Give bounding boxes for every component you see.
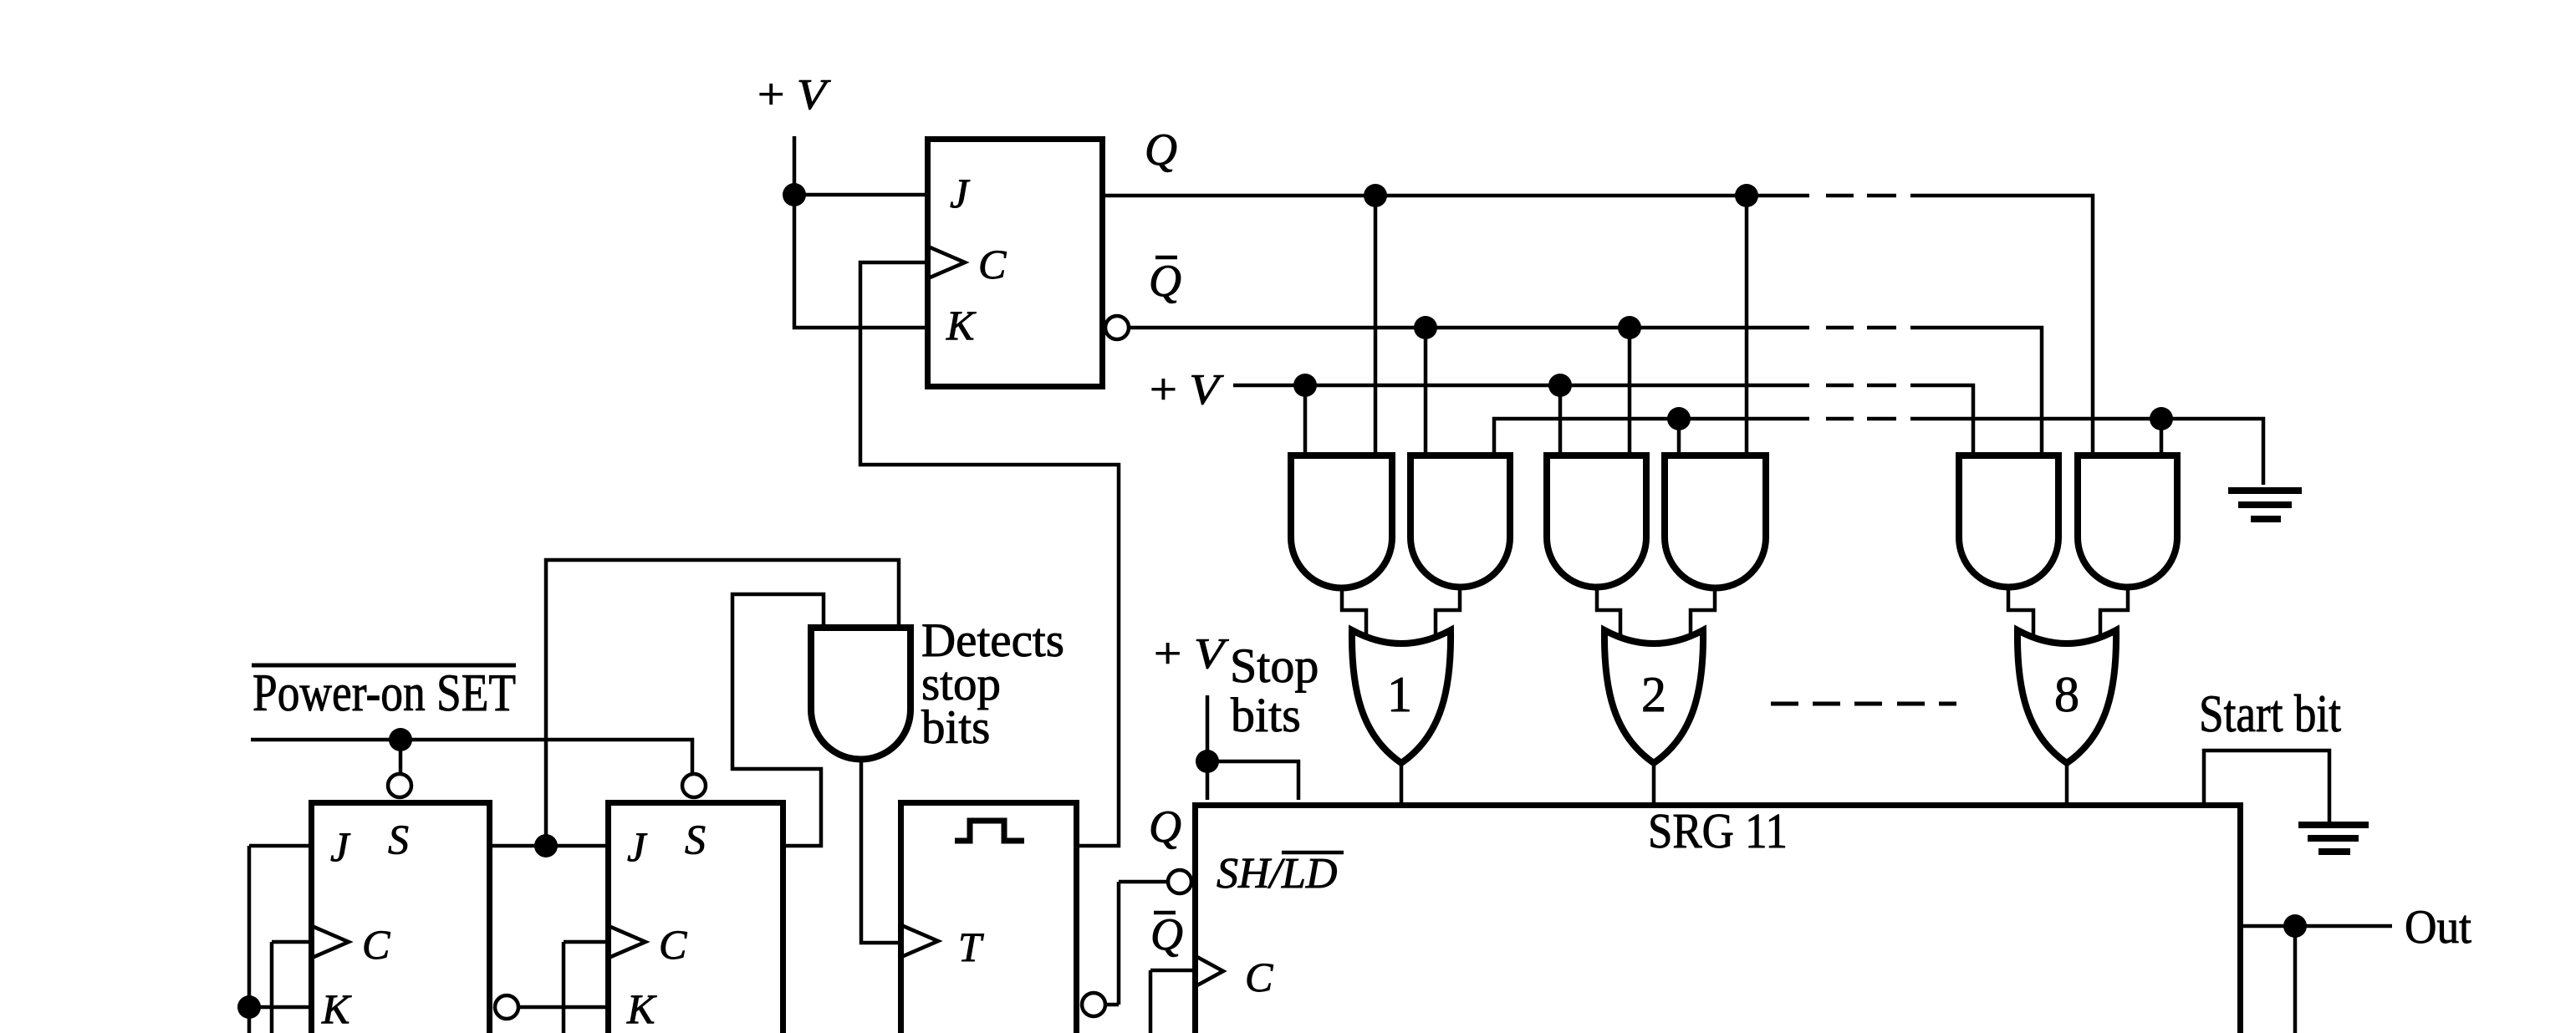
svg-text:Q: Q (1149, 801, 1181, 852)
node dot Power-on SET to U2 S (389, 728, 412, 751)
node Power-on SET overline (252, 664, 516, 668)
clock triangle C of U1 (928, 247, 965, 278)
bubble SH/LD input of SRG (1168, 870, 1191, 893)
bubble Qbar output of U4 (1082, 993, 1105, 1016)
wire +V bus (1233, 385, 1973, 453)
svg-text:Power-on SET: Power-on SET (252, 664, 516, 722)
svg-text:Q: Q (1149, 256, 1181, 306)
gate G2 (OR, bit 2) (1604, 630, 1703, 763)
node dot Q to gate A1 (1364, 184, 1387, 207)
wire A8 output to OR G8 (2100, 588, 2128, 637)
svg-text:+ V: + V (1154, 630, 1229, 678)
node dot Q to gate A4 (1735, 184, 1758, 207)
wire A5 output to U4 T input (861, 759, 898, 943)
clock triangle C of U3 (609, 926, 645, 958)
flip-flop U3 (stop-bit J-K) (609, 803, 783, 1033)
svg-text:S: S (388, 816, 409, 863)
wire A4 output to OR G2 (1691, 588, 1715, 637)
node dot +V to gate A3 (1548, 374, 1572, 397)
bubble Qbar output of U1 (1105, 316, 1129, 339)
gate A8 (AND) (2078, 455, 2177, 588)
node dot Qbar to gate A3 (1618, 316, 1641, 339)
register SRG 11 (1196, 806, 2241, 1033)
svg-text:+ V: + V (757, 71, 831, 119)
wire +V stub down to J node (793, 136, 797, 191)
node dot on output (2283, 914, 2307, 938)
pulse symbol of U4 (955, 821, 1024, 841)
node junction dot at J/K tie (783, 183, 806, 206)
svg-text:K: K (321, 985, 352, 1032)
node dot stop-bit tie (1196, 750, 1219, 773)
clock triangle C of SRG (1196, 956, 1223, 986)
gate G8 (OR, bit 8) (2017, 630, 2116, 763)
wire Qbar bus of U1 (1129, 328, 2042, 453)
node dot Qbar to gate A2 (1414, 316, 1437, 339)
wire A7 output to OR G8 (2008, 588, 2033, 637)
svg-text:K: K (946, 302, 977, 349)
clock triangle C of U2 (312, 926, 349, 958)
wire J input of U2 (249, 844, 309, 848)
label Detects stop bits (921, 614, 1064, 754)
wire U2 Qbar to U3 K (518, 1005, 605, 1010)
wire C input of SRG from below (1150, 970, 1192, 1033)
svg-text:J: J (627, 823, 648, 870)
ground (top right) (2228, 487, 2302, 522)
wire K input of U2 (249, 1005, 309, 1010)
svg-text:bits: bits (921, 701, 990, 754)
ground (start bit) (2298, 822, 2369, 855)
wire G8 output to SRG (2065, 763, 2069, 802)
node dot U2 Q junction (534, 834, 558, 857)
svg-text:8: 8 (2054, 667, 2079, 722)
clock triangle T of U4 (901, 925, 938, 957)
svg-text:2: 2 (1641, 667, 1666, 722)
svg-text:Start bit: Start bit (2199, 684, 2341, 743)
wire A1 output to OR G1 (1342, 588, 1366, 637)
wire +V down to gate A3 (1558, 385, 1563, 453)
wire Qbar down to gate A2 (1424, 328, 1428, 453)
bubble S input of U3 (682, 774, 706, 797)
svg-text:Stop: Stop (1230, 639, 1319, 693)
gate A1 (AND) (1291, 455, 1392, 588)
wire Q down to gate A1 (1374, 196, 1378, 453)
node dot data line to gate A8 (2150, 407, 2173, 430)
wire A3 output to OR G2 (1597, 588, 1620, 637)
wire start-bit input of SRG to ground (2204, 751, 2329, 822)
gate A3 (AND) (1547, 455, 1646, 588)
node Qbar overline of U1 (1155, 256, 1177, 260)
svg-text:C: C (659, 921, 687, 968)
wire Q bus of U1 (1105, 196, 2093, 453)
svg-text:+ V: + V (1150, 366, 1224, 414)
wire G2 output to SRG (1652, 763, 1656, 802)
wire +V down to gate A1 (1303, 385, 1308, 453)
svg-text:C: C (1245, 954, 1273, 1000)
label Stop bits (1230, 639, 1319, 742)
svg-text:S: S (685, 816, 706, 863)
bubble S input of U2 (388, 774, 411, 797)
gate A2 (AND) (1410, 455, 1510, 588)
flip-flop U1 (top J-K toggle) (928, 140, 1103, 387)
wire J-K feedback vertical of U2 (247, 846, 252, 1033)
wire Qbar down to gate A3 (1628, 328, 1632, 453)
wire G1 output to SRG (1400, 763, 1404, 802)
svg-text:C: C (362, 921, 390, 968)
wire data line down to gate A4 (1677, 419, 1681, 453)
wire stub to U2 S bubble (399, 740, 403, 774)
wire data line down to gate A8 (2160, 419, 2164, 453)
gate G1 (OR, bit 1) (1352, 630, 1451, 763)
wire U4 Qbar to SRG SH/LD (1105, 882, 1167, 1005)
wire U2 Q to U3 J (492, 844, 605, 848)
wire A2 output to OR G1 (1436, 588, 1460, 637)
svg-text:K: K (626, 985, 657, 1032)
node dot +V to gate A1 (1293, 374, 1317, 397)
svg-text:T: T (958, 924, 984, 970)
svg-text:C: C (978, 241, 1007, 288)
wire dashes between G2 and G8 (1771, 702, 1956, 706)
svg-text:1: 1 (1387, 667, 1412, 722)
node Qbar overline of U4 (1154, 911, 1176, 915)
wire Q down to gate A4 (1745, 196, 1749, 453)
node dot data line to gate A4 (1667, 407, 1691, 430)
svg-text:J: J (950, 170, 971, 216)
gate A7 (AND) (1959, 455, 2058, 588)
svg-text:J: J (330, 823, 351, 870)
wire K input of U1 tied to +V (794, 195, 925, 328)
wire C of U1 from one-shot Q (860, 262, 1119, 846)
wire +V to stop-bit inputs of SRG (1207, 695, 1298, 800)
node dot K tie of U2 (237, 995, 261, 1019)
svg-text:Q: Q (1150, 909, 1183, 959)
pin label overline over LD (1282, 851, 1344, 855)
wire U2 Q up to gate A5 right input (546, 560, 899, 846)
wire C input of U2 from below (272, 942, 309, 1033)
wire U3 Q to gate A5 left input (732, 594, 824, 846)
wire data line from gate A2 input across to ground (1494, 419, 2263, 485)
wire Power-on SET line (251, 740, 692, 773)
svg-text:SH/LD: SH/LD (1217, 850, 1337, 898)
gate A4 (AND) (1665, 455, 1766, 588)
bubble Qbar output of U2 (495, 995, 518, 1019)
wire J input of U1 (794, 193, 925, 197)
wire C input of U3 from below (564, 942, 605, 1033)
flip-flop U2 (stop-bit J-K) (312, 803, 490, 1033)
gate A5 (AND, detects stop bits) (811, 628, 911, 760)
wire serial output of SRG (2243, 926, 2392, 1033)
svg-text:Q: Q (1145, 125, 1177, 175)
svg-text:Out: Out (2405, 901, 2471, 954)
one-shot U4 (901, 803, 1077, 1033)
svg-text:bits: bits (1231, 688, 1301, 742)
svg-text:SRG 11: SRG 11 (1648, 803, 1788, 858)
